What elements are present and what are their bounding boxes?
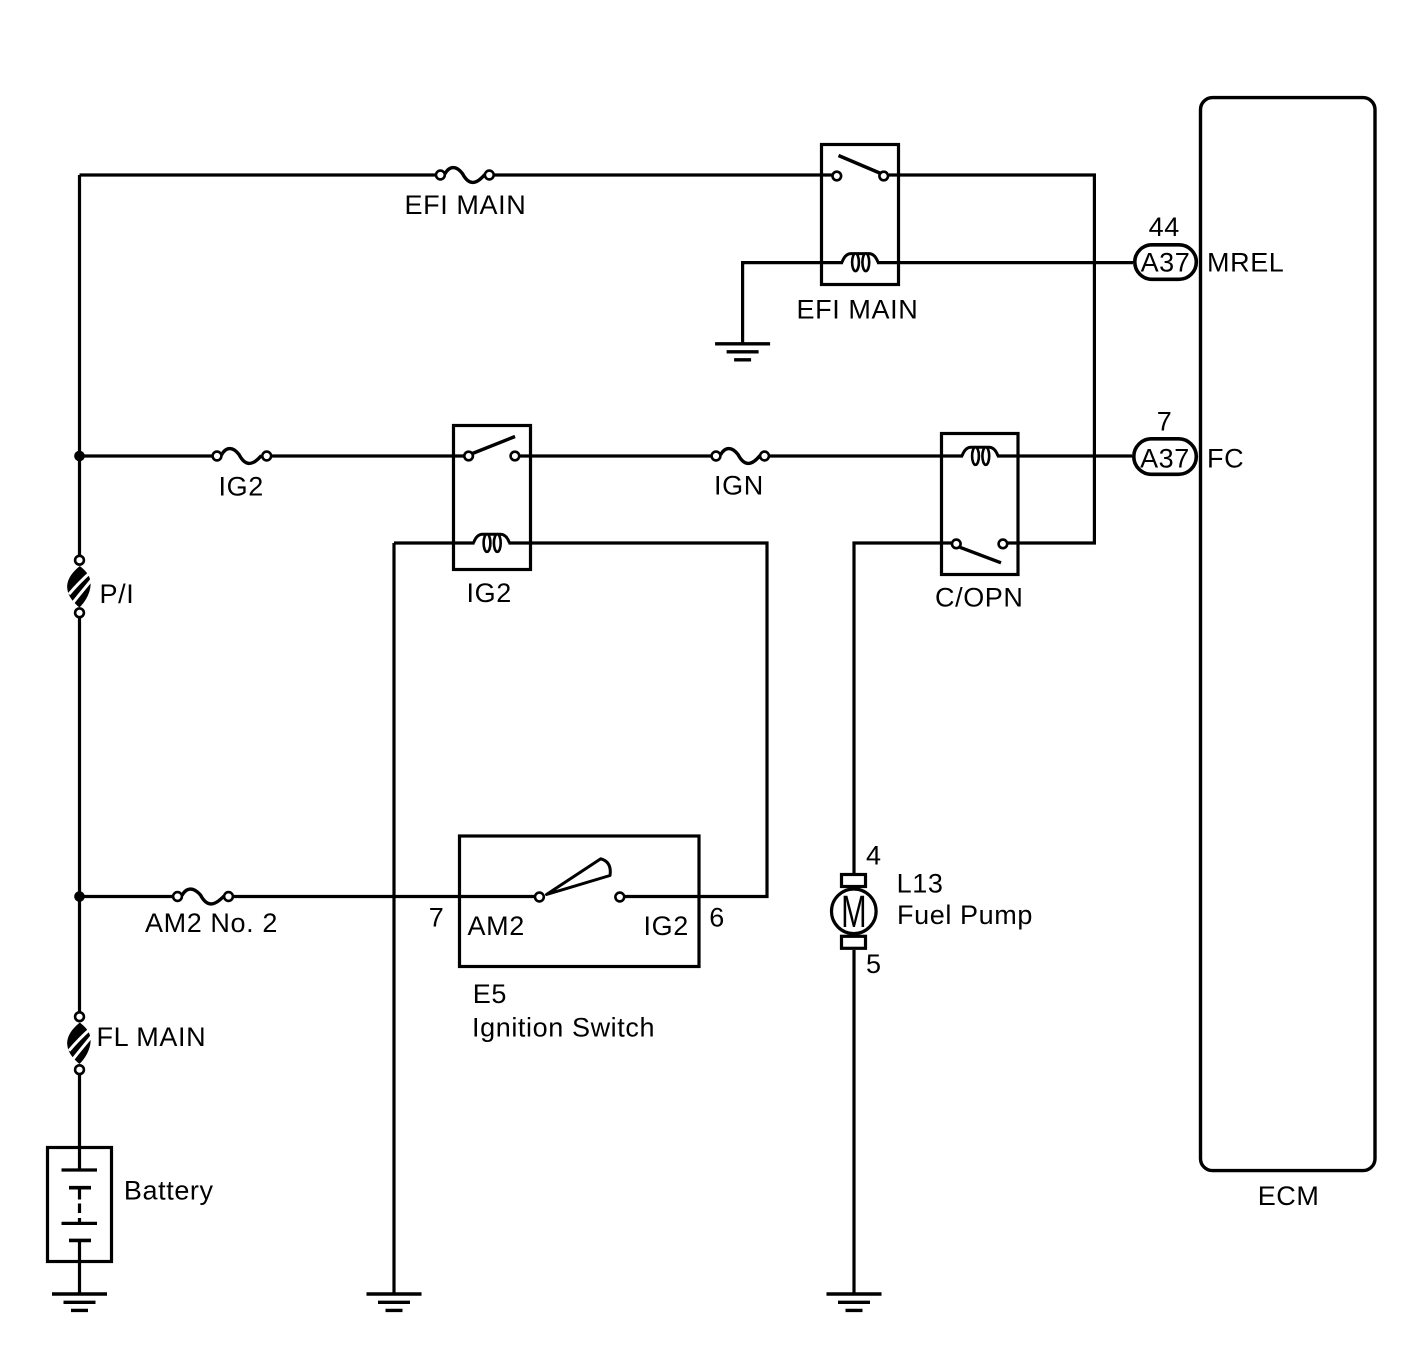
svg-text:MREL: MREL xyxy=(1207,248,1284,278)
svg-text:IGN: IGN xyxy=(714,471,764,501)
svg-text:IG2: IG2 xyxy=(219,472,264,502)
svg-text:EFI MAIN: EFI MAIN xyxy=(405,190,527,220)
svg-text:P/I: P/I xyxy=(100,579,135,609)
svg-text:IG2: IG2 xyxy=(644,911,689,941)
svg-text:FL MAIN: FL MAIN xyxy=(97,1022,207,1052)
svg-text:7: 7 xyxy=(1157,407,1173,437)
svg-text:4: 4 xyxy=(866,841,882,871)
svg-text:A37: A37 xyxy=(1141,248,1191,278)
svg-text:AM2 No. 2: AM2 No. 2 xyxy=(145,908,278,938)
svg-text:AM2: AM2 xyxy=(468,911,525,941)
svg-text:IG2: IG2 xyxy=(467,578,512,608)
svg-text:Battery: Battery xyxy=(124,1176,214,1206)
svg-text:6: 6 xyxy=(709,903,725,933)
svg-text:ECM: ECM xyxy=(1258,1181,1320,1211)
svg-text:44: 44 xyxy=(1149,212,1180,242)
svg-text:Ignition Switch: Ignition Switch xyxy=(472,1013,655,1043)
svg-text:A37: A37 xyxy=(1140,444,1190,474)
svg-text:L13: L13 xyxy=(897,869,944,899)
svg-text:5: 5 xyxy=(866,949,882,979)
svg-text:E5: E5 xyxy=(473,979,507,1009)
svg-text:FC: FC xyxy=(1207,444,1244,474)
svg-text:M: M xyxy=(841,887,866,937)
svg-text:Fuel Pump: Fuel Pump xyxy=(897,900,1033,930)
svg-text:7: 7 xyxy=(429,903,445,933)
svg-text:EFI MAIN: EFI MAIN xyxy=(797,295,919,325)
svg-text:C/OPN: C/OPN xyxy=(935,583,1024,613)
